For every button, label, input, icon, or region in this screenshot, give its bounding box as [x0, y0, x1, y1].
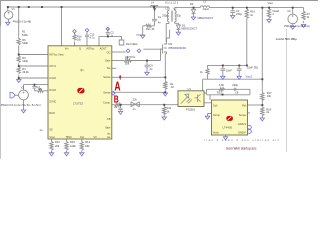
- svg-text:TBLK: TBLK: [66, 136, 73, 139]
- svg-text:OVLO: OVLO: [49, 89, 56, 92]
- svg-text:R14: R14: [85, 140, 90, 144]
- svg-text:Q: Q: [79, 48, 81, 51]
- svg-text:Css: Css: [80, 136, 85, 139]
- svg-text:AOUT: AOUT: [100, 48, 107, 51]
- svg-text:Gate: Gate: [105, 60, 111, 63]
- svg-text:10k: 10k: [267, 94, 272, 98]
- svg-text:Vsec: Vsec: [50, 136, 56, 139]
- svg-text:GND-F: GND-F: [238, 131, 246, 134]
- svg-text:M1: M1: [169, 42, 173, 46]
- svg-text:Gate: Gate: [105, 127, 111, 130]
- svg-text:Jean Web startup.asc: Jean Web startup.asc: [226, 146, 257, 150]
- svg-text:Vtr: Vtr: [94, 136, 97, 139]
- svg-text:INTVcc: INTVcc: [86, 48, 95, 51]
- svg-text:GND-S: GND-S: [238, 123, 246, 126]
- svg-text:V1: V1: [12, 7, 16, 11]
- svg-text:SYNC: SYNC: [49, 101, 56, 104]
- svg-text:RUN: RUN: [49, 112, 55, 115]
- svg-text:D2: D2: [190, 2, 194, 6]
- svg-text:PWL(0 0.5 1m 1m 5m 5m .5m 5m): PWL(0 0.5 1m 1m 5m 5m .5m 5m): [1, 103, 41, 107]
- svg-text:10µH: 10µH: [203, 7, 209, 11]
- svg-text:V2: V2: [21, 86, 25, 90]
- svg-text:.tran 0 10ms 0 1us startup uic: .tran 0 10ms 0 1us startup uic: [202, 138, 280, 142]
- svg-text:LT4430: LT4430: [223, 125, 233, 129]
- svg-text:20k: 20k: [55, 144, 60, 148]
- svg-text:330µ: 330µ: [162, 14, 168, 18]
- svg-text:R15: R15: [70, 140, 75, 144]
- svg-text:C8: C8: [235, 90, 239, 94]
- svg-text:R13: R13: [217, 90, 222, 94]
- svg-text:INTVcc Vsec: INTVcc Vsec: [49, 54, 64, 57]
- svg-text:K1 L1 L2 1: K1 L1 L2 1: [166, 1, 179, 5]
- svg-text:Rsrt tddec: Rsrt tddec: [126, 42, 139, 46]
- svg-text:Jumbo 500 180µ: Jumbo 500 180µ: [276, 37, 297, 41]
- svg-text:Comp: Comp: [213, 114, 220, 117]
- svg-text:Sense: Sense: [239, 114, 247, 117]
- svg-text:R8: R8: [38, 87, 42, 91]
- svg-text:49.9k: 49.9k: [22, 70, 29, 74]
- svg-text:Rsn 10: Rsn 10: [146, 27, 155, 31]
- svg-text:FB: FB: [107, 118, 111, 121]
- svg-text:SS: SS: [49, 129, 53, 132]
- svg-text:IPB60R299CPA: IPB60R299CPA: [168, 47, 186, 50]
- svg-text:Q1: Q1: [80, 69, 84, 72]
- svg-text:100k: 100k: [70, 144, 76, 148]
- svg-text:PS2501: PS2501: [186, 108, 196, 112]
- svg-text:U1: U1: [188, 87, 192, 91]
- svg-text:R12: R12: [55, 140, 60, 144]
- svg-text:LT3752: LT3752: [73, 101, 84, 105]
- svg-text:Sw: Sw: [107, 67, 111, 70]
- svg-text:IVO S: IVO S: [49, 65, 56, 68]
- svg-text:10k: 10k: [77, 38, 82, 42]
- svg-text:Vout: Vout: [268, 1, 273, 5]
- svg-text:549k: 549k: [22, 33, 28, 37]
- svg-text:Comp: Comp: [103, 101, 110, 104]
- svg-text:1.5k: 1.5k: [219, 83, 225, 87]
- svg-text:Vin: Vin: [65, 48, 69, 51]
- svg-text:MBR20100CT: MBR20100CT: [181, 28, 197, 31]
- svg-text:PWL(0 0 1ms 48 5ms): PWL(0 0 1ms 48 5ms): [284, 24, 310, 28]
- svg-text:V3: V3: [287, 9, 291, 13]
- svg-text:Vmin: Vmin: [213, 131, 219, 134]
- svg-text:B: B: [114, 95, 119, 106]
- svg-text:R9: R9: [125, 55, 129, 59]
- svg-text:Sense: Sense: [103, 91, 111, 94]
- svg-text:Sense: Sense: [103, 76, 111, 79]
- svg-text:PWL(0 0 5µ 48): PWL(0 0 5µ 48): [13, 19, 31, 23]
- svg-text:10k: 10k: [125, 62, 130, 66]
- svg-text:4.7µ: 4.7µ: [90, 37, 95, 40]
- svg-text:Vout1: Vout1: [246, 75, 253, 78]
- svg-text:OC: OC: [107, 51, 111, 54]
- svg-text:A: A: [114, 80, 120, 94]
- svg-text:Ref: Ref: [242, 105, 246, 108]
- svg-text:33µ: 33µ: [177, 14, 182, 18]
- svg-text:.02: .02: [170, 85, 174, 89]
- svg-text:10nF TBL: 10nF TBL: [247, 66, 259, 70]
- svg-text:10nF: 10nF: [226, 68, 232, 72]
- svg-text:220µ: 220µ: [236, 12, 242, 16]
- svg-text:69k: 69k: [85, 144, 90, 148]
- svg-text:MBR20100CT: MBR20100CT: [198, 17, 214, 20]
- svg-text:549k: 549k: [22, 41, 28, 45]
- svg-text:22k: 22k: [133, 97, 138, 101]
- svg-text:Coll: Coll: [213, 105, 218, 108]
- svg-text:UVLO: UVLO: [49, 77, 56, 80]
- svg-text:220p: 220p: [232, 83, 238, 87]
- svg-text:100k: 100k: [22, 59, 28, 63]
